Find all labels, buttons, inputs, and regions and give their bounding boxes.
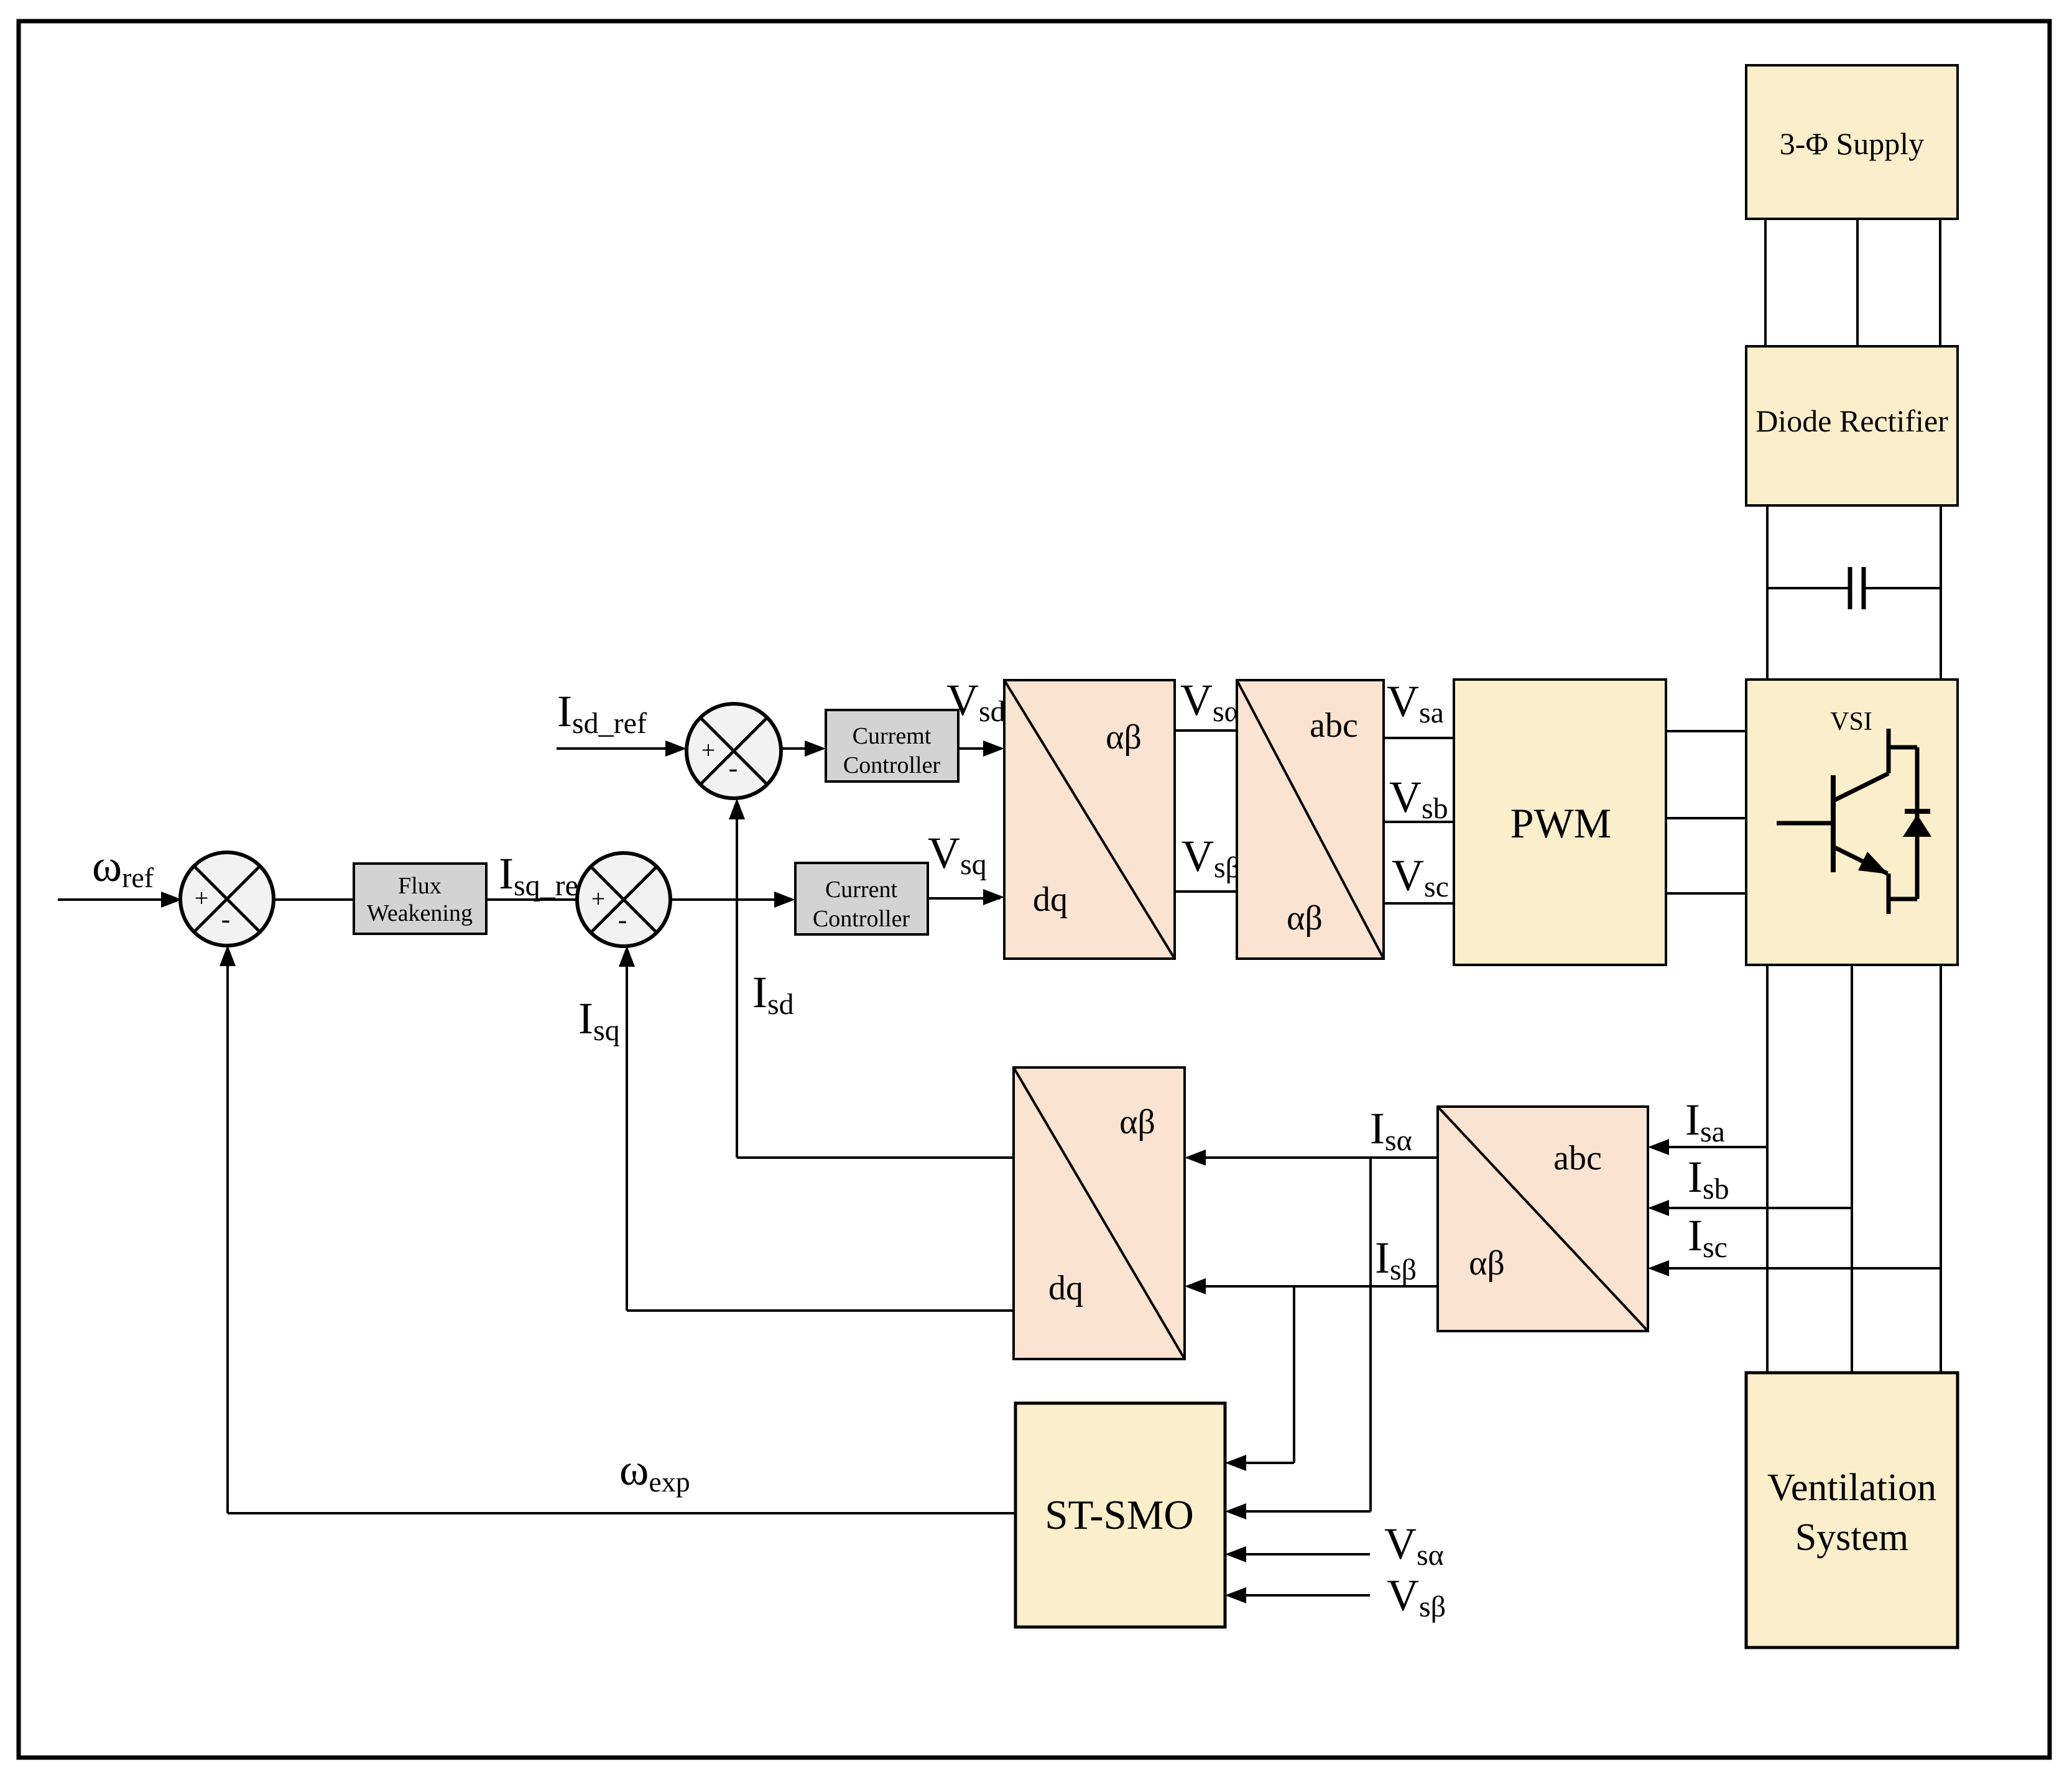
wire dc bus negative	[1940, 505, 1942, 680]
svg-text:αβ: αβ	[1287, 899, 1323, 938]
block curremt controller d-axis	[826, 710, 958, 781]
block ventilation system	[1746, 1373, 1958, 1648]
block dq to alpha-beta transform U1	[1004, 680, 1175, 959]
wire curremt controller to transform U1	[958, 747, 1000, 750]
svg-text:Diode Rectifier: Diode Rectifier	[1755, 403, 1948, 438]
wire omega ref input	[58, 898, 163, 901]
wire flux weakening to S2	[486, 898, 578, 901]
wire PWM to VSI gate 3	[1666, 892, 1746, 895]
wire Vsbeta	[1175, 890, 1237, 893]
wire Isalpha tap to ST-SMO	[1225, 1158, 1371, 1519]
svg-text:Controller: Controller	[843, 752, 941, 778]
wire VSI output phase a	[1766, 965, 1769, 1373]
svg-text:abc: abc	[1310, 706, 1358, 745]
wire Isd feedback vertical	[736, 803, 738, 1158]
wire Isbeta	[1189, 1285, 1438, 1288]
svg-text:dq: dq	[1033, 880, 1068, 919]
wire Isalpha	[1189, 1156, 1438, 1159]
wire dc link rail right	[1864, 587, 1941, 589]
svg-text:PWM: PWM	[1510, 800, 1611, 847]
wire Isc	[1652, 1267, 1941, 1270]
wire dc bus positive	[1766, 505, 1769, 680]
svg-text:3-Φ Supply: 3-Φ Supply	[1780, 126, 1924, 161]
wire omega exp feedback vertical	[226, 949, 229, 1513]
wire S1 to flux weakening	[273, 898, 354, 901]
svg-text:-: -	[618, 905, 627, 935]
block current controller q-axis	[795, 863, 928, 934]
wire supply phase b	[1856, 219, 1859, 346]
wire Isq feedback vertical	[626, 950, 628, 1311]
block alpha-beta to dq transform U3	[1014, 1067, 1185, 1359]
wire Vsalpha input to ST-SMO	[1229, 1553, 1370, 1556]
block abc to alpha-beta transform U4	[1438, 1107, 1648, 1331]
wire omega exp feedback horizontal	[228, 1512, 1015, 1514]
svg-text:VSI: VSI	[1830, 708, 1872, 736]
svg-text:Ventilation: Ventilation	[1767, 1467, 1936, 1509]
svg-text:Current: Current	[825, 877, 898, 903]
wire Isa	[1652, 1146, 1767, 1148]
wire Isd_ref input	[557, 747, 682, 750]
svg-text:Flux: Flux	[398, 873, 442, 899]
svg-text:Controller: Controller	[813, 906, 910, 932]
wire S2 to current controller	[670, 898, 791, 901]
wire Isbeta tap to ST-SMO	[1225, 1286, 1294, 1471]
wire PWM to VSI gate 2	[1666, 817, 1746, 819]
wire VSI output phase b	[1851, 965, 1853, 1373]
block flux weakening	[354, 864, 486, 934]
wire current controller q to transform U1	[928, 897, 1000, 900]
capacitor C dc-link	[1850, 567, 1864, 609]
svg-text:αβ: αβ	[1469, 1244, 1505, 1283]
wire Vsc	[1384, 902, 1454, 905]
wire Vsalpha	[1175, 729, 1237, 732]
node summing junction S2	[577, 853, 670, 946]
svg-text:dq: dq	[1048, 1269, 1083, 1307]
diode antiparallel inside VSI	[1889, 747, 1931, 899]
svg-text:Curremt: Curremt	[853, 723, 932, 749]
wire Isb	[1652, 1207, 1852, 1209]
svg-text:αβ: αβ	[1106, 718, 1142, 757]
wire Vsb	[1384, 821, 1454, 823]
svg-text:ST-SMO: ST-SMO	[1045, 1492, 1194, 1538]
node summing junction S3	[687, 704, 781, 798]
svg-text:+: +	[701, 736, 716, 764]
wire Isq feedback horizontal	[627, 1309, 1014, 1312]
wire dc link rail left	[1767, 587, 1849, 589]
wire PWM to VSI gate 1	[1666, 730, 1746, 732]
block diode rectifier	[1746, 346, 1958, 505]
svg-text:Weakening: Weakening	[367, 900, 473, 926]
svg-text:+: +	[195, 884, 209, 912]
block VSI	[1746, 680, 1958, 965]
node summing junction S1	[180, 852, 274, 946]
wire supply phase a	[1764, 219, 1767, 346]
wire VSI output phase c	[1940, 965, 1942, 1373]
svg-text:-: -	[729, 753, 738, 783]
block alpha-beta to abc transform U2	[1237, 680, 1384, 959]
svg-text:αβ: αβ	[1119, 1103, 1155, 1141]
block 3-phase supply	[1746, 65, 1958, 219]
wire Vsa	[1384, 737, 1454, 739]
svg-text:+: +	[591, 885, 606, 913]
block ST-SMO observer	[1015, 1403, 1225, 1627]
svg-text:abc: abc	[1553, 1139, 1602, 1178]
svg-text:-: -	[221, 904, 231, 934]
wire supply phase c	[1939, 219, 1941, 346]
wire Isd feedback horizontal	[737, 1156, 1014, 1159]
wire S3 to curremt controller	[781, 747, 821, 750]
block PWM	[1454, 680, 1666, 965]
transistor IGBT inside VSI	[1777, 729, 1889, 914]
svg-text:System: System	[1795, 1516, 1909, 1559]
wire Vsbeta input to ST-SMO	[1229, 1594, 1370, 1597]
